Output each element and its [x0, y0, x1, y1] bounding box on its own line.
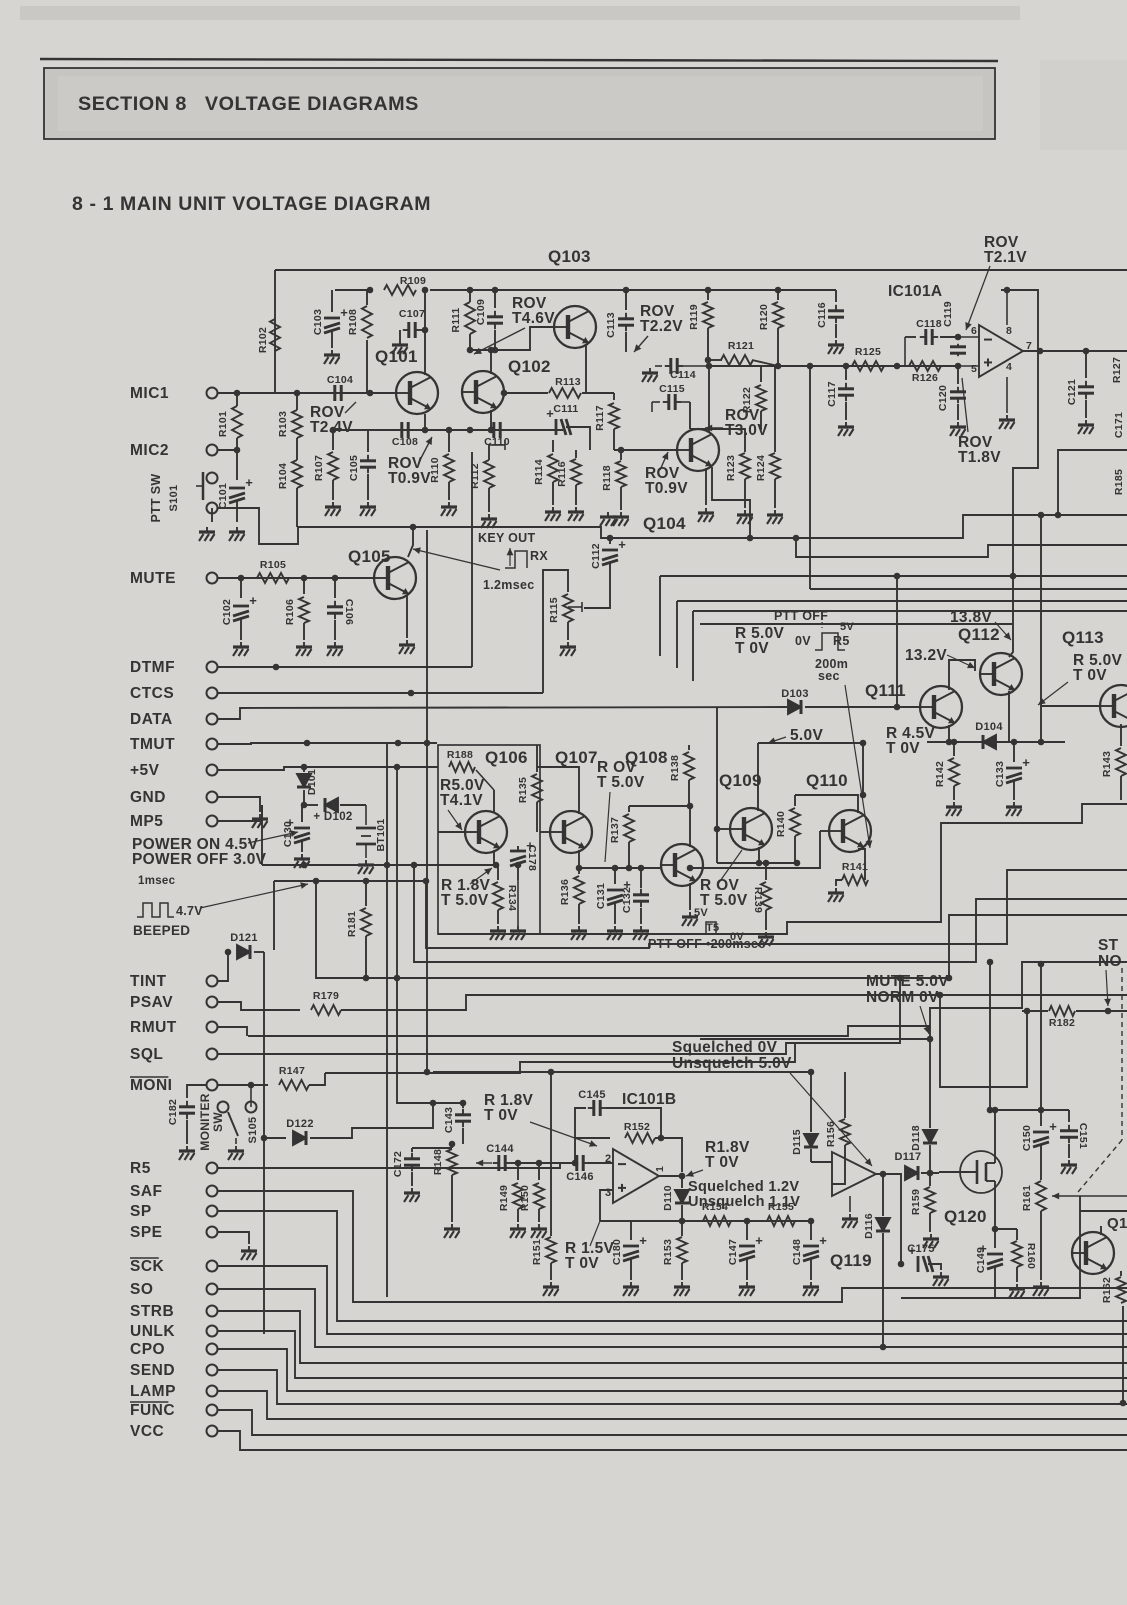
svg-text:CPO: CPO: [130, 1341, 165, 1358]
svg-text:DTMF: DTMF: [130, 659, 175, 676]
svg-text:DATA: DATA: [130, 711, 173, 728]
svg-text:SECTION 8 VOLTAGE DIAGRAMS: SECTION 8 VOLTAGE DIAGRAMS: [78, 93, 419, 115]
transistor Q107: [550, 811, 592, 853]
svg-text:C106: C106: [343, 599, 355, 625]
svg-text:C121: C121: [1066, 379, 1078, 405]
wire UNLK: [218, 1331, 1127, 1378]
capacitor C107: [403, 322, 421, 338]
svg-text:T 5.0V: T 5.0V: [700, 892, 748, 909]
svg-text:T 0V: T 0V: [886, 740, 920, 757]
svg-text:R115: R115: [548, 597, 560, 623]
wire bus s9: [1040, 962, 1042, 1110]
wire SQL: [218, 1053, 265, 1055]
svg-text:R116: R116: [556, 461, 568, 487]
diode D116: [882, 1174, 884, 1216]
resistor R123: [744, 448, 746, 452]
ground BT101: [358, 860, 374, 874]
svg-text:Squelched 0V: Squelched 0V: [672, 1039, 778, 1056]
transistor Q112: [980, 653, 1022, 695]
arrow 200msec: [845, 685, 870, 848]
svg-text:1.2msec: 1.2msec: [483, 578, 534, 592]
wire power rail1: [262, 864, 496, 866]
wire CPO: [218, 1349, 1127, 1391]
ground R118: [600, 512, 616, 526]
svg-text:4: 4: [1006, 361, 1012, 373]
ground pin4: [999, 415, 1015, 429]
svg-text:ST: ST: [1098, 937, 1119, 954]
resistor R179: [311, 1005, 341, 1015]
resistor R104: [292, 460, 302, 488]
wire 5.0V node: [758, 742, 863, 744]
svg-text:RMUT: RMUT: [130, 1019, 177, 1036]
svg-text:T4.6V: T4.6V: [512, 310, 555, 327]
wire bus L962: [414, 865, 1127, 962]
svg-text:C105: C105: [348, 455, 360, 481]
svg-text:R109: R109: [400, 275, 426, 287]
svg-text:1msec: 1msec: [138, 875, 176, 887]
resistor R162: [1120, 1271, 1122, 1276]
resistor R112: [488, 445, 490, 460]
svg-text:C175: C175: [907, 1243, 935, 1255]
svg-text:D118: D118: [910, 1125, 922, 1151]
wire VCC: [218, 1431, 1127, 1450]
svg-text:Q111: Q111: [865, 681, 906, 700]
svg-text:D101: D101: [306, 769, 318, 795]
transistor Q111: [920, 686, 962, 728]
wire RMUT: [218, 1027, 247, 1036]
resistor R152: [575, 1137, 610, 1139]
ground R114: [545, 507, 561, 521]
capacitor C120: [957, 366, 959, 384]
wire v x397: [397, 767, 463, 1103]
resistor R118: [620, 450, 622, 460]
svg-text:T 0V: T 0V: [705, 1154, 739, 1171]
svg-text:SW: SW: [211, 1112, 225, 1132]
ground R107: [325, 502, 341, 516]
svg-text:D121: D121: [230, 932, 258, 944]
capacitor C151: [1068, 1110, 1070, 1122]
wire Q110 collector: [795, 795, 858, 813]
capacitor C180: [630, 1221, 632, 1240]
ground R150: [531, 1224, 547, 1238]
wire Q112 emitter: [1008, 691, 1010, 742]
diode D121: [228, 951, 230, 953]
svg-text:R102: R102: [257, 327, 269, 353]
capacitor C148: [810, 1221, 812, 1240]
box Q106: [438, 745, 540, 934]
svg-text:R113: R113: [555, 376, 581, 388]
wire output: [1023, 350, 1127, 352]
arrow keyout: [413, 549, 500, 570]
svg-text:8 - 1 MAIN UNIT VOLTAGE DIAGRA: 8 - 1 MAIN UNIT VOLTAGE DIAGRAM: [72, 193, 431, 215]
header bar: [44, 68, 995, 139]
svg-text:+5V: +5V: [130, 762, 160, 779]
wire Q113 base: [1041, 705, 1100, 707]
svg-text:MONITER: MONITER: [198, 1093, 212, 1150]
svg-text:Q107: Q107: [555, 748, 598, 767]
resistor R139: [765, 863, 767, 880]
svg-text:C145: C145: [578, 1089, 606, 1101]
wire Q110 emitter: [858, 849, 865, 880]
capacitor C149: [994, 1229, 996, 1248]
svg-text:R136: R136: [559, 879, 571, 905]
svg-text:Q119: Q119: [830, 1251, 872, 1270]
svg-text:SCK: SCK: [130, 1258, 165, 1275]
wire GND row: [218, 797, 260, 812]
wire q120 bottom: [901, 1211, 1127, 1298]
wire Q106 collector: [493, 790, 495, 812]
svg-text:Q120: Q120: [944, 1207, 987, 1226]
wire Q109 base: [717, 828, 730, 830]
svg-text:MIC2: MIC2: [130, 442, 169, 459]
resistor R137: [628, 806, 630, 812]
wire top rail Q103: [275, 269, 1127, 271]
svg-text:C180: C180: [611, 1239, 623, 1265]
ground C130: [294, 854, 310, 868]
ground C105: [360, 502, 376, 516]
wire MIC1 row: [218, 392, 396, 394]
capacitor C147: [746, 1221, 748, 1240]
diode D117: [905, 1166, 918, 1180]
svg-text:R159: R159: [910, 1189, 922, 1215]
svg-text:C112: C112: [590, 543, 602, 569]
svg-text:MUTE: MUTE: [130, 570, 176, 587]
svg-text:C150: C150: [1021, 1125, 1033, 1151]
wire chan F2: [677, 600, 1127, 602]
svg-text:+ D102: + D102: [313, 811, 352, 823]
capacitor C117: [845, 366, 847, 380]
wire q121 link: [1079, 1196, 1081, 1211]
wire C112 down: [584, 580, 610, 608]
wire bus s7: [325, 1043, 795, 1073]
wire TMUT: [218, 743, 437, 744]
svg-text:C143: C143: [443, 1107, 455, 1133]
wire output1: [659, 1175, 682, 1177]
wire R148 rail: [412, 1147, 452, 1149]
transistor Q106: [465, 811, 507, 853]
ground C106: [327, 642, 343, 656]
wire bus s8: [940, 995, 1027, 1087]
svg-text:+: +: [755, 1233, 763, 1248]
ground R149: [510, 1224, 526, 1238]
resistor R119: [707, 290, 709, 300]
svg-text:+: +: [249, 593, 257, 608]
capacitor C111: [556, 419, 571, 435]
ground C116: [828, 340, 844, 354]
svg-text:R127: R127: [1111, 357, 1123, 383]
resistor R188: [449, 762, 475, 772]
svg-text:R188: R188: [447, 749, 473, 761]
svg-text:C133: C133: [994, 761, 1006, 787]
svg-text:NORM 0V: NORM 0V: [866, 989, 939, 1006]
junction NORM: [927, 1036, 934, 1043]
svg-text:R124: R124: [755, 455, 767, 481]
svg-text:C171: C171: [1113, 412, 1125, 438]
ground R159: [923, 1234, 939, 1248]
transistor Q113: [1100, 685, 1127, 727]
resistor R111: [469, 290, 471, 302]
wire bus L934: [438, 804, 1127, 934]
wire Q103 emitter: [585, 345, 587, 393]
capacitor C131: [614, 868, 616, 884]
op-amp IC101A: [979, 325, 1023, 377]
junction D116 bus: [880, 1344, 887, 1351]
diode D103: [788, 700, 801, 714]
svg-text:5: 5: [971, 363, 977, 375]
svg-text:R154: R154: [702, 1201, 728, 1213]
resistor R141: [842, 875, 868, 885]
resistor R134: [497, 865, 499, 880]
wire MP5: [218, 805, 262, 821]
ground C172: [404, 1188, 420, 1202]
capacitor C102: [240, 578, 242, 598]
ground C133: [1006, 802, 1022, 816]
wire v x387: [386, 743, 388, 1297]
svg-text:D104: D104: [975, 721, 1003, 733]
wire bus s6: [265, 978, 900, 1054]
capacitor C172: [411, 1148, 413, 1152]
svg-text:FUNC: FUNC: [130, 1402, 175, 1419]
svg-text:VCC: VCC: [130, 1423, 164, 1440]
svg-text:MP5: MP5: [130, 813, 163, 830]
svg-text:Q101: Q101: [375, 347, 418, 366]
svg-text:R112: R112: [469, 463, 481, 489]
ground R110: [441, 502, 457, 516]
capacitor C114: [655, 365, 662, 367]
pulse RX: [505, 551, 527, 568]
wire DTMF: [218, 666, 472, 668]
wire TINT: [218, 952, 228, 981]
junction: [367, 287, 374, 294]
svg-text:R185: R185: [1113, 469, 1125, 495]
resistor R121: [708, 359, 722, 361]
svg-text:C116: C116: [816, 302, 828, 328]
svg-text:R106: R106: [284, 599, 296, 625]
resistor R151: [550, 1072, 552, 1236]
svg-text:R141: R141: [842, 861, 868, 873]
svg-text:C104: C104: [327, 374, 353, 386]
svg-text:Unsquelch 5.0V: Unsquelch 5.0V: [672, 1055, 792, 1072]
wire norm h: [700, 1038, 930, 1040]
svg-text:C151: C151: [1077, 1123, 1089, 1149]
capacitor C143: [462, 1103, 464, 1108]
transistor Q120 fet: [960, 1151, 1002, 1193]
ground C147: [739, 1282, 755, 1296]
resistor R103: [292, 410, 302, 438]
svg-text:Q102: Q102: [508, 357, 551, 376]
wire v x427: [426, 530, 428, 1072]
svg-text:R149: R149: [498, 1185, 510, 1211]
wire rail2: [335, 289, 370, 291]
wire SEND: [218, 1370, 1127, 1404]
wire SPE: [218, 1232, 249, 1244]
wire power rail2: [274, 880, 426, 882]
wire feedback: [1001, 290, 1038, 657]
resistor R105: [257, 573, 289, 583]
svg-text:1: 1: [654, 1166, 666, 1172]
svg-text:R125: R125: [855, 346, 881, 358]
svg-text:C149: C149: [975, 1247, 987, 1273]
svg-text:Q113: Q113: [1062, 628, 1104, 647]
svg-text:D103: D103: [781, 688, 809, 700]
svg-text:R119: R119: [688, 304, 700, 330]
svg-text:C111: C111: [553, 403, 578, 415]
wire R122 top: [735, 366, 775, 430]
svg-text:R142: R142: [934, 761, 946, 787]
svg-text:T4.1V: T4.1V: [440, 792, 483, 809]
ground C120: [950, 422, 966, 436]
svg-text:R162: R162: [1101, 1277, 1113, 1303]
svg-text:0V: 0V: [795, 634, 811, 648]
ground C151: [1061, 1160, 1077, 1174]
ground Q105: [399, 640, 415, 654]
capacitor C150: [1040, 1110, 1042, 1126]
svg-text:R179: R179: [313, 990, 339, 1002]
ground R134: [490, 926, 506, 940]
svg-text:C182: C182: [167, 1099, 179, 1125]
svg-text:R5: R5: [833, 634, 850, 648]
svg-text:R123: R123: [725, 455, 737, 481]
wire SO: [218, 1289, 1127, 1347]
wire chan H: [700, 623, 1013, 625]
wire CTCS: [218, 692, 543, 694]
ground GND: [252, 814, 268, 828]
resistor R182: [1022, 1010, 1048, 1012]
wire bus s5: [248, 962, 1127, 1036]
wire mid rail to IC101A: [778, 365, 958, 367]
wire Q102 collector: [490, 350, 492, 374]
capacitor C119: [950, 344, 966, 356]
svg-text:R114: R114: [533, 459, 545, 485]
svg-text:C120: C120: [937, 385, 949, 411]
ground Q108: [682, 912, 698, 926]
svg-text:R120: R120: [758, 304, 770, 330]
svg-text:R135: R135: [517, 777, 529, 803]
svg-text:IC101A: IC101A: [888, 283, 942, 300]
ground C180: [623, 1282, 639, 1296]
wire DATA: [218, 707, 787, 719]
capacitor C145: [575, 1108, 586, 1163]
capacitor C118: [905, 336, 916, 338]
wire Q107 collector: [537, 767, 579, 814]
svg-text:13.2V: 13.2V: [905, 647, 947, 664]
capacitor C130: [301, 805, 303, 822]
capacitor C103: [331, 290, 333, 312]
transistor Q109: [730, 808, 772, 850]
svg-text:Q108: Q108: [625, 748, 668, 767]
resistor R117: [613, 393, 615, 400]
resistor R156: [844, 1072, 846, 1118]
resistor R143: [1120, 724, 1122, 746]
wire D104 rail: [927, 741, 1065, 743]
wire chan A: [1058, 450, 1127, 515]
svg-text:T2.1V: T2.1V: [984, 249, 1027, 266]
svg-text:BEEPED: BEEPED: [133, 923, 190, 938]
resistor R107: [332, 430, 334, 450]
wire LAMP: [218, 1391, 1127, 1419]
wire drain rail: [995, 1109, 1069, 1111]
svg-text:TINT: TINT: [130, 973, 166, 990]
svg-text:R101: R101: [217, 411, 229, 437]
ground C101: [229, 527, 245, 541]
junction: [467, 287, 474, 294]
arrow BEEPED: [200, 884, 308, 908]
svg-text:R160: R160: [1025, 1243, 1037, 1269]
ground SPE: [241, 1246, 257, 1260]
wire chan D: [796, 538, 1127, 557]
wire Q106 base: [438, 831, 465, 833]
junction: [623, 287, 630, 294]
battery BT101: [365, 805, 367, 825]
wire Q105 collector: [408, 527, 413, 557]
wire emitter rail: [717, 862, 797, 864]
junction Q111 base: [894, 704, 901, 711]
wire Q108 base: [579, 867, 661, 869]
diode D101: [303, 767, 305, 772]
resistor R154: [703, 1216, 731, 1226]
resistor R101: [236, 393, 238, 406]
svg-text:R152: R152: [624, 1121, 650, 1133]
wire comp out2: [1100, 1226, 1102, 1235]
ground R148: [444, 1224, 460, 1238]
svg-text:C117: C117: [826, 381, 838, 407]
svg-text:T0.9V: T0.9V: [645, 480, 688, 497]
wire v x274: [273, 881, 275, 950]
wire chan G: [693, 610, 1127, 612]
wire Q120 drain: [994, 1110, 996, 1151]
svg-text:KEY OUT: KEY OUT: [478, 531, 535, 545]
resistor R155: [767, 1216, 795, 1226]
svg-text:R182: R182: [1049, 1017, 1075, 1029]
wire PTT channel: [218, 508, 1127, 544]
resistor R138: [688, 745, 690, 750]
resistor R109: [384, 285, 416, 295]
ground R106: [296, 642, 312, 656]
svg-text:C102: C102: [221, 599, 233, 625]
wire Q101 emitter down: [424, 414, 426, 430]
wire C111 right: [566, 427, 590, 450]
ground C103: [324, 350, 340, 364]
svg-text:C113: C113: [605, 312, 617, 338]
ground R153: [674, 1282, 690, 1296]
wire v x264: [263, 952, 265, 1334]
wire Q101 collector: [424, 290, 426, 375]
wire bus L978: [316, 881, 1127, 978]
ground R141: [828, 888, 844, 902]
label 5.0V: [768, 737, 786, 743]
transistor Q121: [1072, 1232, 1114, 1274]
capacitor C112: [609, 538, 611, 544]
svg-text:R155: R155: [768, 1201, 794, 1213]
wire MONI row: [218, 1084, 268, 1086]
wire source rail: [995, 1228, 1017, 1230]
op-amp IC101B: [613, 1149, 659, 1203]
ground R116: [568, 507, 584, 521]
header top rule: [40, 59, 998, 61]
resistor R110: [448, 430, 450, 452]
resistor R159: [929, 1173, 931, 1186]
svg-text:R156: R156: [825, 1121, 837, 1147]
capacitor C108: [396, 422, 414, 438]
svg-text:MUTE 5.0V: MUTE 5.0V: [866, 973, 949, 990]
svg-text:T5: T5: [706, 922, 719, 934]
svg-text:R140: R140: [775, 811, 787, 837]
svg-text:C130: C130: [282, 821, 294, 847]
capacitor C178: [517, 846, 519, 850]
wire v x262: [261, 805, 263, 865]
wire v x543: [543, 570, 568, 693]
resistor R116: [575, 450, 577, 458]
